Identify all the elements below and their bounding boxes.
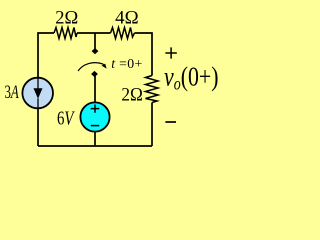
- minus sign inside 6V source: [91, 125, 99, 127]
- svg-text:3A: 3A: [5, 83, 20, 103]
- wire: bottom rail: [38, 145, 152, 147]
- resistor R3 2ohm (right rail, vertical): [146, 76, 159, 103]
- current source I1 3A circle: [22, 78, 53, 109]
- wire: top-right corner segment: [135, 33, 153, 76]
- svg-text:4Ω: 4Ω: [115, 8, 139, 28]
- plus sign inside 6V source: [91, 105, 100, 113]
- current source arrow: [37, 78, 39, 89]
- switch node dot (top): [92, 48, 99, 54]
- wire: middle stub from top node: [94, 33, 96, 50]
- svg-text:t =0+: t =0+: [111, 56, 142, 71]
- svg-text:vo(0+): vo(0+): [164, 62, 219, 94]
- resistor R1 2ohm (top left, horizontal): [54, 28, 77, 39]
- minus polarity mark (bottom right): [165, 121, 176, 123]
- wire: middle branch to 6V source and bottom: [94, 76, 96, 146]
- plus polarity mark (top right): [165, 47, 176, 58]
- wire: left rail below current source: [37, 108, 39, 146]
- switch action arc with arrowhead: [78, 63, 103, 71]
- wire: right rail below 2-ohm resistor: [151, 103, 153, 147]
- wire: top middle segment: [77, 32, 111, 34]
- wire: top-left segment: [38, 33, 54, 78]
- svg-text:2Ω: 2Ω: [121, 86, 142, 106]
- voltage source V1 6V circle: [80, 102, 109, 131]
- switch node dot (bottom): [91, 71, 98, 77]
- svg-text:2Ω: 2Ω: [55, 8, 78, 28]
- resistor R2 4ohm (top right, horizontal): [111, 28, 135, 39]
- svg-text:6V: 6V: [57, 108, 75, 129]
